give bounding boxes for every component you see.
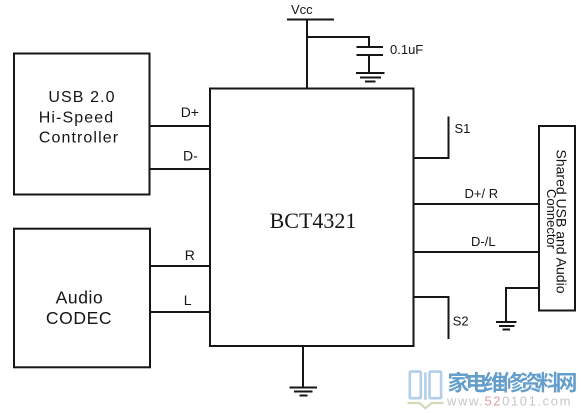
svg-text:BCT4321: BCT4321 bbox=[270, 208, 357, 233]
watermark book icon bbox=[410, 372, 441, 400]
svg-text:S2: S2 bbox=[453, 314, 469, 329]
svg-text:D+/ R: D+/ R bbox=[465, 186, 499, 201]
wire D+/R bbox=[414, 203, 540, 205]
block USB 2.0 Hi-Speed Controller bbox=[14, 54, 150, 195]
svg-text:www.520101.com: www.520101.com bbox=[446, 394, 572, 409]
wire D- bbox=[150, 168, 211, 170]
capacitor C1 0.1uF bbox=[357, 47, 384, 72]
svg-text:Vcc: Vcc bbox=[291, 2, 313, 17]
ground below connector bbox=[496, 322, 517, 330]
connector J1 Shared USB and Audio Connector bbox=[539, 126, 575, 311]
block Audio CODEC bbox=[14, 229, 150, 368]
wire L bbox=[150, 311, 210, 313]
wire U1 bottom to ground bbox=[302, 346, 304, 388]
watermark chinese text bbox=[448, 372, 575, 393]
svg-text:L: L bbox=[184, 292, 192, 308]
wire D+ bbox=[150, 125, 211, 127]
IC U1 BCT4321 bbox=[210, 89, 414, 347]
power Vcc bbox=[287, 2, 334, 20]
svg-text:S1: S1 bbox=[455, 121, 471, 136]
svg-text:D-/L: D-/L bbox=[471, 234, 496, 249]
svg-text:CODEC: CODEC bbox=[46, 308, 112, 328]
svg-text:D+: D+ bbox=[181, 104, 199, 120]
wire D-/L bbox=[414, 251, 540, 253]
svg-text:D-: D- bbox=[183, 148, 198, 164]
svg-text:USB 2.0: USB 2.0 bbox=[48, 89, 115, 106]
svg-text:Hi-Speed: Hi-Speed bbox=[39, 110, 115, 127]
wire connector to ground bbox=[506, 288, 539, 322]
wire R bbox=[150, 265, 210, 267]
wire S1 bbox=[414, 117, 449, 159]
svg-text:0.1uF: 0.1uF bbox=[390, 42, 423, 57]
wire Vcc branch to C1 bbox=[307, 37, 369, 47]
wire Vcc to U1 bbox=[306, 20, 308, 90]
svg-text:Audio: Audio bbox=[56, 287, 104, 307]
svg-text:Connector: Connector bbox=[544, 189, 559, 250]
ground below U1 bbox=[290, 388, 318, 396]
ground below C1 bbox=[356, 73, 385, 82]
watermark book underline swoosh bbox=[408, 403, 444, 408]
svg-text:R: R bbox=[185, 247, 195, 263]
svg-text:Controller: Controller bbox=[39, 130, 119, 147]
wire S2 bbox=[414, 297, 449, 339]
